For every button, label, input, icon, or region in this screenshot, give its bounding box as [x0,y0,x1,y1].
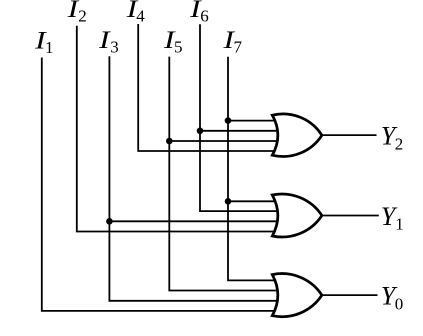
svg-text:2: 2 [395,134,404,153]
wire I5 vertical with elbow into Y0 second input [169,57,277,291]
or-gate Y1 [272,194,322,237]
wire I1 vertical with elbow into Y0 bottom input [42,58,278,311]
svg-text:2: 2 [78,6,87,25]
wire I5 branch to Y2 third input [169,140,277,142]
junction dot I3/Y1 [106,218,113,225]
junction dot I6/Y2 [197,128,204,135]
wire I2 vertical with elbow into Y1 bottom input [77,26,278,232]
wire Y0 output [321,294,378,296]
svg-text:3: 3 [110,38,119,57]
svg-text:5: 5 [174,38,183,57]
wire Y2 output [321,134,377,136]
wire I7 vertical with elbow into Y0 top input [228,57,278,281]
wire I3 branch to Y1 third input [109,220,277,222]
svg-text:7: 7 [234,38,243,57]
wire I4 vertical with elbow into Y2 bottom input [138,24,277,151]
svg-text:1: 1 [395,215,404,234]
or-gate Y2 [272,114,322,157]
junction dot I7/Y2 [225,117,232,124]
svg-text:0: 0 [395,294,404,313]
junction dot I5/Y2 [166,138,173,145]
svg-text:6: 6 [200,6,209,25]
wire I6 branch to Y2 second input [200,130,278,132]
junction dot I7/Y1 [225,198,232,205]
wire I7 branch to Y1 top input [228,200,278,202]
wire Y1 output [321,215,379,217]
svg-text:1: 1 [45,38,54,57]
wire I6 vertical with elbow into Y1 second input [200,24,278,211]
svg-text:4: 4 [136,6,145,25]
wire I3 vertical with elbow into Y0 third input [109,56,277,300]
or-gate Y0 [272,274,322,317]
wire I7 branch to Y2 top input [228,120,278,122]
